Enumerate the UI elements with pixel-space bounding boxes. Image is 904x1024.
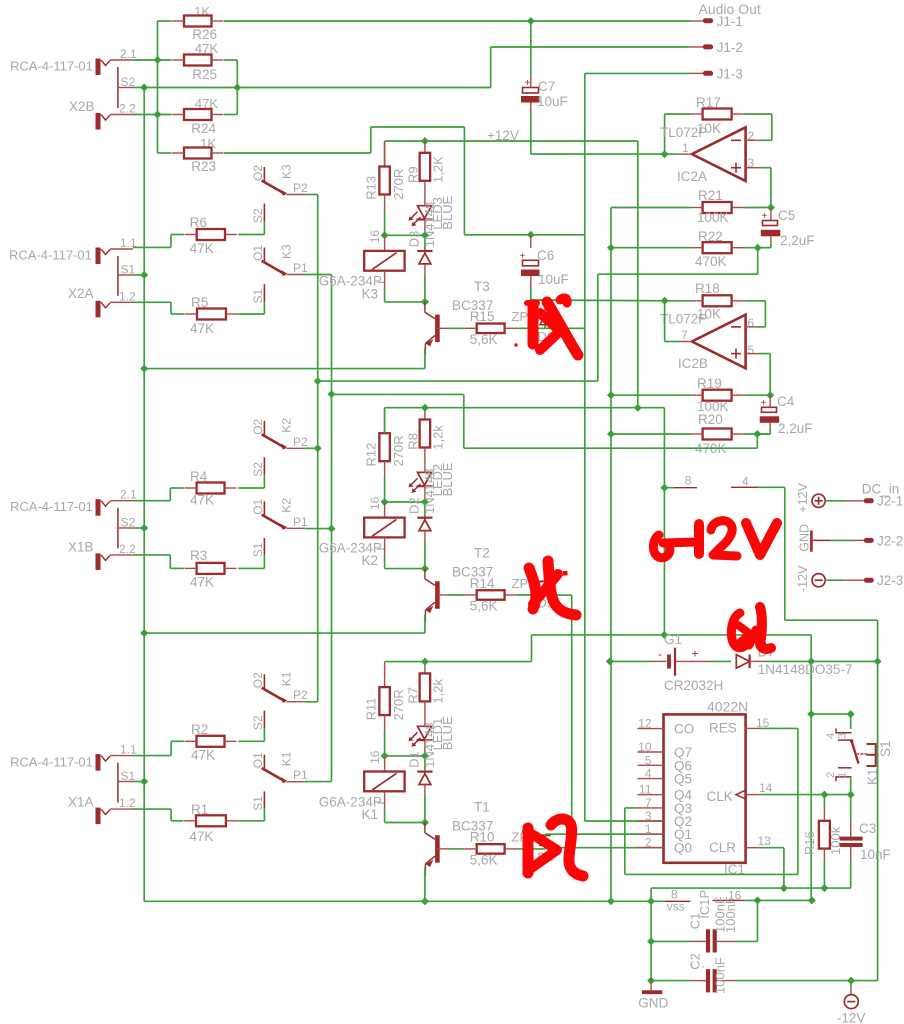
pin IC1-5 Q6 <box>638 753 693 773</box>
svg-text:2.2: 2.2 <box>119 542 136 556</box>
power symbol GND bottom <box>638 981 668 1011</box>
contact O1 K1 <box>251 751 308 783</box>
svg-text:K1: K1 <box>362 807 379 822</box>
pin IC1-2 Q0 <box>638 836 693 856</box>
op-amp IC2B TL072P <box>660 312 755 372</box>
wire T1 emitter to ground row <box>424 867 426 901</box>
svg-text:K1: K1 <box>280 671 294 686</box>
svg-text:J2-1: J2-1 <box>877 494 903 509</box>
wire row888 <box>651 888 851 901</box>
svg-text:R3: R3 <box>190 548 207 563</box>
pin IC2B-5 <box>746 354 771 396</box>
svg-text:IC2A: IC2A <box>677 169 707 184</box>
wire S2 to resistor K3 <box>238 221 264 235</box>
svg-text:R13: R13 <box>364 176 379 200</box>
wire R22 right <box>743 247 771 249</box>
annotation scribble zener T3 <box>514 298 578 355</box>
svg-text:1,2k: 1,2k <box>431 679 446 704</box>
svg-text:S2: S2 <box>251 715 265 730</box>
label +12V net <box>487 128 519 143</box>
svg-text:C5: C5 <box>778 208 795 223</box>
svg-text:270R: 270R <box>391 689 406 720</box>
svg-text:CO: CO <box>674 722 694 737</box>
svg-text:RES: RES <box>709 721 737 736</box>
wire C1 branch <box>735 900 758 941</box>
wire D4 top row <box>545 834 664 848</box>
pin P1 K3 <box>286 274 304 276</box>
svg-text:1K: 1K <box>200 136 216 151</box>
svg-text:J1-2: J1-2 <box>717 40 743 55</box>
junction pin16/C1 <box>754 896 762 904</box>
wire T1 base row to pin Q0 <box>545 847 664 849</box>
junction +12V rail tap <box>634 404 642 412</box>
svg-text:1: 1 <box>682 141 689 155</box>
svg-text:RCA-4-117-01: RCA-4-117-01 <box>9 248 92 263</box>
wire G1 riser to D7 row <box>810 635 812 902</box>
wire S2 pin to bus <box>133 87 144 89</box>
wire R17 right to pin2 <box>743 114 772 140</box>
svg-text:K3: K3 <box>280 164 294 179</box>
wire ground bus vertical <box>143 88 145 902</box>
svg-text:-12V: -12V <box>796 565 810 592</box>
resistor R6 47K <box>185 215 237 256</box>
svg-text:1.1: 1.1 <box>120 743 137 757</box>
wire R25 right <box>224 60 237 88</box>
contact O2 K3 <box>251 164 308 196</box>
junction CLR row888 <box>780 884 788 892</box>
svg-text:P2: P2 <box>293 181 308 195</box>
svg-text:100k: 100k <box>828 826 843 855</box>
wire bus to R23 left <box>158 115 172 154</box>
pin P1 K1 <box>286 781 304 783</box>
svg-text:1N4148: 1N4148 <box>422 468 437 514</box>
svg-text:K2: K2 <box>362 553 379 568</box>
wire bias rail x611 <box>610 248 612 902</box>
resistor R18 10K <box>691 281 744 322</box>
resistor R3 47K <box>185 548 237 590</box>
svg-text:K2: K2 <box>280 498 294 513</box>
wire X1B 2.1 to R4 <box>133 488 184 501</box>
wire P1-K3 to bus <box>305 275 332 782</box>
junction relay pin16 K2 <box>381 498 389 506</box>
junction R8 top <box>421 404 429 412</box>
svg-text:S1: S1 <box>251 542 265 557</box>
transistor T2 BC337 <box>425 546 493 622</box>
junction R7 top <box>421 658 429 666</box>
pin IC1-11 Q4 <box>638 783 693 803</box>
svg-text:2.1: 2.1 <box>120 47 137 61</box>
wire relay bottom K3 <box>385 288 425 302</box>
svg-text:R16: R16 <box>802 831 817 855</box>
wire X1B S2 <box>133 527 144 529</box>
svg-text:47K: 47K <box>190 493 214 508</box>
pin IC1-13 CLR <box>709 834 784 888</box>
svg-text:K1: K1 <box>280 751 294 766</box>
contact O2 K1 <box>251 190 308 704</box>
svg-text:+12V: +12V <box>796 482 810 512</box>
junction -12V drop <box>847 977 855 985</box>
svg-text:P1: P1 <box>293 261 308 275</box>
resistor R26 value 1K <box>172 4 224 42</box>
wire C2 right to -12V row <box>735 980 878 982</box>
wire +12V rail <box>385 141 638 408</box>
pin relay bottom K2 <box>384 537 386 555</box>
resistor R24 value 47K <box>172 96 224 136</box>
svg-text:K3: K3 <box>280 244 294 259</box>
pin R9 bottom <box>424 181 426 206</box>
svg-text:C2: C2 <box>688 953 703 970</box>
wire R12 bottom <box>384 461 386 502</box>
resistor R16 100k <box>802 795 843 889</box>
svg-text:D1: D1 <box>407 751 422 768</box>
wire R10 right <box>517 848 545 850</box>
junction IC2P pin8 row <box>660 484 668 492</box>
junction X2B 2.1 <box>154 56 162 64</box>
wire R20 right <box>743 433 770 435</box>
switch S1 <box>825 714 893 795</box>
junction pin16 rail <box>808 896 816 904</box>
relay coil K3 G6A-234P <box>319 251 405 302</box>
svg-text:D3: D3 <box>407 231 422 248</box>
wire X1A S1 <box>133 781 144 783</box>
svg-text:+: + <box>692 647 699 661</box>
label Audio Out <box>699 1 761 17</box>
wire R19 left <box>611 394 691 396</box>
svg-text:GND: GND <box>638 996 668 1011</box>
junction LED/diode K3 <box>421 231 429 239</box>
wire P1-K2 stub <box>305 528 332 530</box>
svg-text:R26: R26 <box>192 27 217 42</box>
svg-text:2: 2 <box>825 772 837 778</box>
junction gnd row C1 <box>647 897 655 905</box>
svg-text:RCA-4-117-01: RCA-4-117-01 <box>10 499 93 514</box>
svg-text:5,6K: 5,6K <box>470 852 498 867</box>
contact S1 K2 <box>251 538 265 557</box>
svg-text:S1: S1 <box>251 288 265 303</box>
svg-text:-12V: -12V <box>837 1011 866 1024</box>
svg-text:S2: S2 <box>251 462 265 477</box>
label pin 16 K1 <box>368 750 382 764</box>
wire bias row to C6 <box>531 299 665 302</box>
resistor R5 47K <box>185 295 238 336</box>
svg-text:47K: 47K <box>190 321 214 336</box>
svg-text:8: 8 <box>685 474 692 488</box>
wire K2 LED rail row <box>385 408 665 434</box>
resistor R14 5,6K <box>464 576 517 614</box>
resistor R2 47K <box>185 722 237 763</box>
power symbol -12V bottom <box>837 981 866 1024</box>
svg-text:X2B: X2B <box>69 99 95 114</box>
pin R8 bottom <box>424 448 426 473</box>
svg-text:100K: 100K <box>697 210 729 225</box>
capacitor C2 100nF <box>651 953 735 994</box>
junction CLK/R16 <box>820 791 828 799</box>
op-amp IC2A TL072P <box>660 125 755 184</box>
power symbol +12V J2 <box>796 482 825 512</box>
capacitor C1 100nF <box>651 896 738 952</box>
resistor R23 value 1K <box>172 136 224 174</box>
svg-text:R10: R10 <box>470 830 495 845</box>
wire R19 right <box>743 394 770 396</box>
wire RES to Q3 loop <box>625 728 798 874</box>
svg-text:1: 1 <box>837 772 849 778</box>
wire X1B 2.2 to R3 <box>133 555 184 569</box>
resistor R7 1,2K <box>406 662 446 704</box>
relay coil K1 G6A-234P <box>319 772 405 823</box>
wire input bus X2B <box>157 60 159 115</box>
wire row16 K2 <box>385 501 425 503</box>
contact S2 K1 <box>251 711 265 731</box>
wire output row to C7/J1-3 <box>531 153 665 155</box>
wire S1 to resistor K2 <box>238 555 264 568</box>
wire busB jog <box>332 394 758 448</box>
svg-text:X2A: X2A <box>68 286 94 301</box>
connector pin J2-2 <box>813 534 904 549</box>
capacitor C3 10nF <box>840 795 891 889</box>
svg-text:P2: P2 <box>293 435 308 449</box>
svg-text:R8: R8 <box>406 433 421 450</box>
svg-text:C6: C6 <box>537 248 554 263</box>
junction S2 net at x237 <box>233 84 241 92</box>
connector pin J1-2 <box>690 40 743 55</box>
svg-text:1.2: 1.2 <box>119 289 136 303</box>
junction T1 emitter <box>421 897 429 905</box>
LED LED2 BLUE <box>409 462 456 502</box>
wire bus B upper <box>464 234 584 236</box>
svg-text:BLUE: BLUE <box>440 462 455 496</box>
svg-text:6: 6 <box>748 316 755 330</box>
svg-text:J1-3: J1-3 <box>717 67 743 82</box>
wire row16 K1 <box>385 755 425 757</box>
wire X2A S1 <box>133 274 144 276</box>
svg-text:1N4148DO35-7: 1N4148DO35-7 <box>758 662 853 677</box>
svg-text:16: 16 <box>368 750 382 764</box>
junction P1-K2 <box>328 525 336 533</box>
junction R20 left rail <box>607 430 615 438</box>
contact O2 K2 <box>251 190 308 450</box>
relay coil K2 G6A-234P <box>319 518 405 569</box>
wire S2 to resistor K1 <box>238 728 264 741</box>
svg-text:O1: O1 <box>251 752 265 768</box>
junction C5 bottom <box>754 244 762 252</box>
wire T2 emitter to ground bus <box>144 615 425 633</box>
svg-text:BLUE: BLUE <box>440 195 455 229</box>
wire T3 emitter to ground bus <box>144 348 425 369</box>
connector pin J1-3 <box>690 67 743 82</box>
resistor R17 10K <box>691 95 744 136</box>
wire X2A 1.2 to R5 <box>133 302 185 314</box>
wire R24 right <box>224 88 237 115</box>
pin relay 16 K3 <box>384 235 386 251</box>
svg-text:10uF: 10uF <box>537 94 568 109</box>
svg-text:R9: R9 <box>406 166 421 183</box>
annotation scribble zener T2 <box>529 561 576 615</box>
svg-text:T3: T3 <box>474 279 490 294</box>
junction G1 net <box>660 631 668 639</box>
svg-text:1N4148: 1N4148 <box>422 202 437 248</box>
resistor R21 100K <box>691 188 744 225</box>
wire C5 junction jog <box>598 248 758 275</box>
svg-text:P1: P1 <box>293 768 308 782</box>
svg-text:S1: S1 <box>878 740 893 757</box>
pin T1 base <box>437 848 464 850</box>
svg-text:P1: P1 <box>293 515 308 529</box>
resistor R15 5,6K <box>464 309 517 347</box>
junction R19 left rail <box>607 391 615 399</box>
junction relay/diode/collector K2 <box>421 565 429 573</box>
pin IC1-4 Q5 <box>638 767 693 787</box>
capacitor C4 2,2uF <box>757 394 812 436</box>
junction R19/C4/pin5 <box>766 391 774 399</box>
junction P2-K2 <box>314 444 322 452</box>
pin IC2B-7 output <box>665 301 692 342</box>
svg-text:O1: O1 <box>251 245 265 261</box>
junction R18/pin7/bias <box>661 297 669 305</box>
pin IC2P-8 +12V <box>664 474 697 488</box>
svg-text:10nF: 10nF <box>860 847 891 862</box>
wire X2A 1.1 to R6 <box>133 235 184 248</box>
svg-text:C3: C3 <box>859 821 876 836</box>
svg-text:R12: R12 <box>364 443 379 467</box>
svg-text:T2: T2 <box>474 546 490 561</box>
svg-text:CR2032H: CR2032H <box>664 678 723 693</box>
zener diode D5 <box>512 576 555 611</box>
svg-text:5,6K: 5,6K <box>470 332 498 347</box>
svg-text:R25: R25 <box>192 67 217 82</box>
junction IC2A output <box>661 150 669 158</box>
svg-text:5: 5 <box>645 753 652 767</box>
junction R21/C5/pin3 <box>767 204 775 212</box>
svg-text:270R: 270R <box>391 435 406 466</box>
junction X2B 2.2 <box>154 111 162 119</box>
junction R22 left <box>607 244 615 252</box>
svg-text:TL072P: TL072P <box>660 312 707 327</box>
junction T2 emitter row <box>140 629 148 637</box>
wire R13 bottom <box>384 195 386 236</box>
resistor R25 value 47K <box>172 41 224 82</box>
svg-text:CLR: CLR <box>709 840 736 855</box>
svg-text:5: 5 <box>748 343 755 357</box>
wire busA row <box>318 274 598 381</box>
svg-text:R14: R14 <box>470 576 495 591</box>
connector X2B RCA-4-117-01 <box>10 47 137 130</box>
svg-text:TL072P: TL072P <box>660 125 707 140</box>
wire ground row <box>144 900 664 902</box>
svg-text:R6: R6 <box>190 215 207 230</box>
svg-text:47K: 47K <box>191 748 215 763</box>
LED LED1 BLUE <box>409 716 456 756</box>
junction R9 top <box>421 137 429 145</box>
pin IC2A-3 <box>746 168 771 208</box>
svg-text:16: 16 <box>368 496 382 510</box>
junction relay pin16 K3 <box>381 231 389 239</box>
svg-text:G1: G1 <box>664 632 682 647</box>
junction busA tap <box>314 377 322 385</box>
pin IC2B-6 <box>746 326 758 328</box>
wire S2 to resistor K2 <box>238 475 264 488</box>
svg-text:2,2uF: 2,2uF <box>780 233 815 248</box>
connector X1A RCA-4-117-01 <box>10 743 137 825</box>
power symbol GND J2 <box>798 524 812 552</box>
svg-text:1: 1 <box>645 822 652 836</box>
pin IC1P-8 vss <box>664 887 690 913</box>
junction LED/diode K2 <box>421 498 429 506</box>
svg-text:1,2k: 1,2k <box>431 425 446 450</box>
svg-text:47K: 47K <box>190 575 214 590</box>
junction busB tap <box>328 390 336 398</box>
wire T3 base row to bus B <box>545 327 585 329</box>
pin relay bottom K3 <box>384 271 386 289</box>
svg-text:K2: K2 <box>280 418 294 433</box>
pin R7 bottom <box>424 701 426 726</box>
tiny dots <box>691 964 704 968</box>
wire R17 left <box>665 114 691 154</box>
pin IC2A-2 <box>746 139 758 141</box>
diode D2 1N4148 <box>407 468 438 568</box>
svg-text:47K: 47K <box>189 829 213 844</box>
svg-text:O2: O2 <box>251 165 265 181</box>
connector pin J1-1 <box>691 14 743 29</box>
svg-text:15: 15 <box>756 716 770 730</box>
pin IC1-12 CO <box>638 717 695 737</box>
svg-text:K3: K3 <box>362 286 379 301</box>
zener diode D6 <box>512 309 555 344</box>
svg-text:J2-3: J2-3 <box>877 573 903 588</box>
junction C7 top <box>527 17 535 25</box>
pin T3 base <box>437 327 464 329</box>
connector pin J2-3 <box>825 573 903 588</box>
resistor R4 47K <box>185 469 237 508</box>
IC IC1 4022N box <box>664 699 749 878</box>
resistor R13 270R <box>364 141 407 200</box>
pin IC1-7 Q3 <box>638 796 693 816</box>
annotation text +12V <box>653 521 777 558</box>
svg-text:C4: C4 <box>777 394 795 409</box>
junction S2 X2B <box>140 84 148 92</box>
diode D3 1N4148 <box>407 202 438 302</box>
contact S2 K3 <box>251 204 265 224</box>
svg-text:11: 11 <box>639 783 652 797</box>
annotation scribble diode T1 <box>527 819 583 876</box>
svg-text:7: 7 <box>645 796 652 810</box>
resistor R11 270R <box>364 662 407 721</box>
pin IC2A-1 output <box>665 153 692 155</box>
junction C1 left <box>647 937 655 945</box>
power symbol -12V J2 <box>796 565 825 592</box>
capacitor C7 10uF <box>521 21 568 154</box>
svg-text:2: 2 <box>645 836 652 850</box>
svg-text:R24: R24 <box>191 121 216 136</box>
svg-text:O1: O1 <box>251 498 265 514</box>
pin IC2P-4 -12V <box>731 475 785 489</box>
contact O1 K3 <box>251 244 308 276</box>
junction T3 emitter row <box>140 365 148 373</box>
svg-text:X1B: X1B <box>68 540 94 555</box>
svg-text:13: 13 <box>758 834 772 848</box>
svg-text:2.2: 2.2 <box>119 102 136 116</box>
annotation scribble diode D7 <box>731 607 771 649</box>
svg-text:10uF: 10uF <box>538 272 569 287</box>
svg-text:1,2K: 1,2K <box>431 156 446 183</box>
svg-text:R23: R23 <box>191 159 216 174</box>
junction S1 rail a <box>807 710 815 718</box>
pin IC1-15 RES <box>709 716 798 736</box>
contact S2 K2 <box>251 457 265 477</box>
svg-text:1.2: 1.2 <box>119 796 136 810</box>
wire rail to IC2 V+ <box>663 408 665 635</box>
svg-text:12: 12 <box>638 717 652 731</box>
svg-text:T1: T1 <box>474 800 490 815</box>
